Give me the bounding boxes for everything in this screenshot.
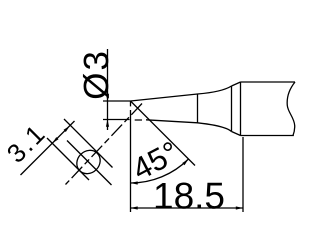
svg-text:18.5: 18.5: [153, 175, 225, 216]
